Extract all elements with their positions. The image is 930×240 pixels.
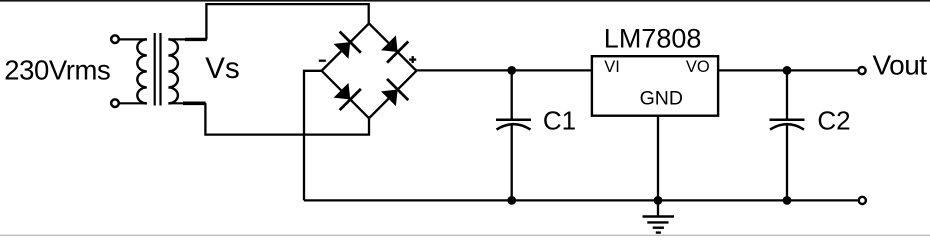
wire: top rail from secondary top to bridge top corner bbox=[206, 4, 368, 39]
diode D3 (left corner to bottom corner) bbox=[330, 80, 360, 110]
transformer core bbox=[155, 33, 161, 106]
svg-text:C1: C1 bbox=[543, 105, 576, 135]
transformer primary winding bbox=[137, 39, 147, 103]
svg-text:VI: VI bbox=[604, 58, 620, 76]
bridge plus label bbox=[409, 56, 416, 63]
top image border bbox=[0, 0, 930, 2]
wire: C2 vertical bbox=[786, 70, 788, 200]
wire: regulator VO to output terminal bbox=[719, 69, 858, 71]
wire: secondary bottom lead bbox=[168, 102, 205, 104]
junction node: C1 bottom bbox=[507, 196, 516, 205]
output terminal (top) bbox=[858, 67, 865, 74]
junction node: C2 top bbox=[783, 66, 792, 75]
wire: C1 vertical bbox=[511, 70, 513, 200]
svg-text:GND: GND bbox=[640, 87, 683, 109]
diode D2 (top corner to right corner) bbox=[378, 32, 408, 62]
voltage regulator U1 box bbox=[592, 56, 718, 115]
svg-text:LM7808: LM7808 bbox=[604, 24, 702, 54]
svg-text:VO: VO bbox=[686, 58, 710, 76]
svg-text:C2: C2 bbox=[817, 105, 850, 135]
junction node: C1 top bbox=[507, 66, 516, 75]
bottom image border bbox=[0, 235, 930, 236]
diode D4 (bottom corner to right corner) bbox=[378, 79, 408, 109]
svg-text:230Vrms: 230Vrms bbox=[4, 55, 110, 86]
diode D1 (left corner to top corner) bbox=[330, 32, 360, 62]
wire: bridge plus corner to regulator VI bbox=[416, 69, 591, 71]
junction node: C2 bottom bbox=[783, 196, 792, 205]
transformer secondary winding bbox=[168, 39, 178, 103]
junction node: ground bbox=[654, 196, 663, 205]
bridge minus label bbox=[319, 60, 326, 62]
svg-text:Vs: Vs bbox=[205, 52, 239, 85]
ground symbol bbox=[643, 200, 675, 232]
svg-text:Vout: Vout bbox=[873, 50, 928, 81]
wire: regulator GND down to bottom rail bbox=[657, 116, 659, 200]
output terminal (bottom) bbox=[859, 197, 866, 204]
capacitor C2 bbox=[770, 120, 805, 130]
transformer primary terminal (top) bbox=[111, 35, 147, 43]
wire: secondary top lead bbox=[168, 38, 206, 40]
transformer primary terminal (bottom) bbox=[111, 99, 147, 107]
wire: bridge minus corner down to bottom rail bbox=[304, 71, 322, 201]
bridge rectifier diamond bbox=[322, 23, 417, 118]
wire: bottom rail bbox=[304, 199, 858, 201]
capacitor C1 bbox=[496, 120, 531, 130]
wire: secondary bottom to bridge bottom corner bbox=[205, 103, 369, 135]
